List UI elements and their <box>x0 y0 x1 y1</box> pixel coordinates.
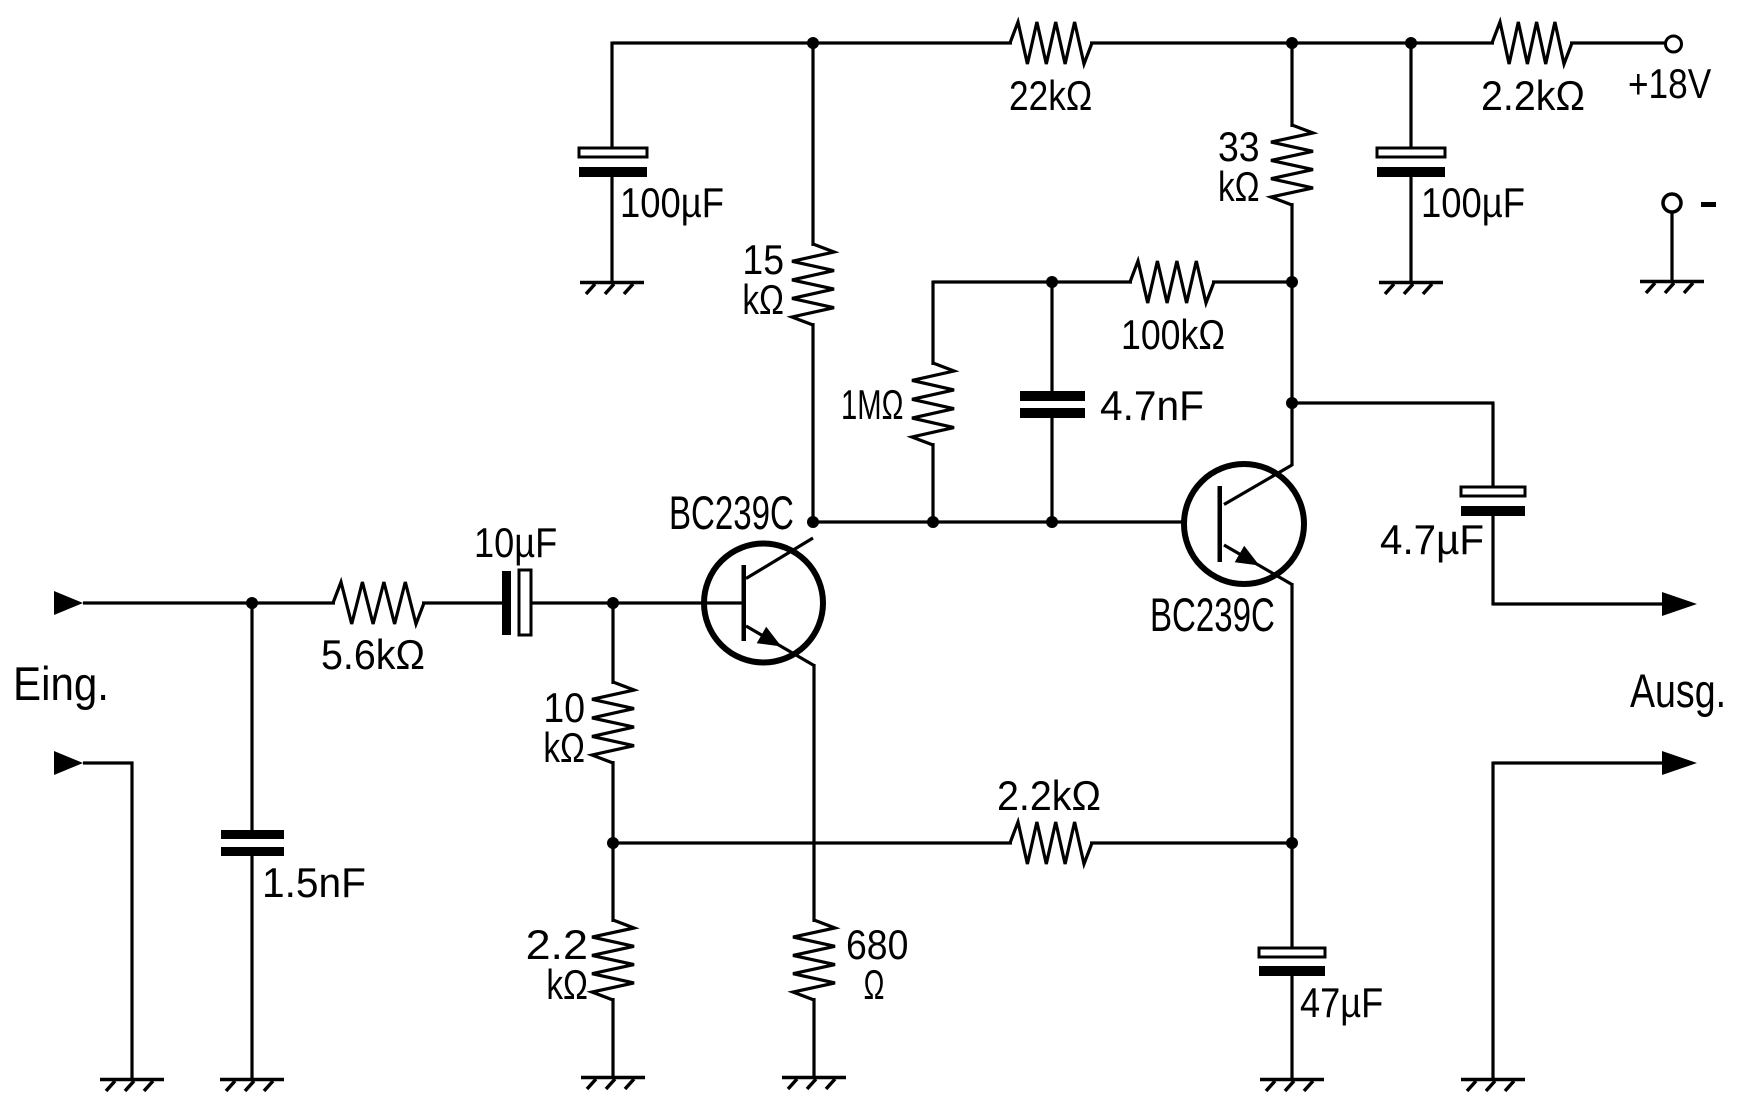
label Ausg. <box>1630 664 1726 717</box>
svg-text:BC239C: BC239C <box>1150 588 1275 641</box>
wire Q1 collector to Q2 base row <box>813 520 1183 523</box>
wire output2 horizontal <box>1493 761 1665 764</box>
junction 100kΩ row / 4.7nF top <box>1046 276 1058 288</box>
wire Q2 collector vertical <box>1290 403 1293 466</box>
wire 15kΩ to Q1 collector node <box>811 323 814 522</box>
label +18V <box>1628 60 1711 107</box>
svg-text:1MΩ: 1MΩ <box>841 381 903 428</box>
wire 1.5nF to ground <box>250 856 253 1079</box>
junction rail / 33kΩ column <box>1286 37 1298 49</box>
resistor 15kΩ <box>792 244 834 325</box>
label 10µF <box>474 519 557 566</box>
wire rail corner down to C2 <box>1409 43 1412 149</box>
svg-text:2.2kΩ: 2.2kΩ <box>997 772 1101 819</box>
svg-text:Ω: Ω <box>864 961 885 1008</box>
svg-text:100µF: 100µF <box>1421 179 1525 226</box>
wire rail to 33kΩ <box>1290 43 1293 127</box>
wire input2 vertical to ground <box>130 762 133 1080</box>
junction feedback / Q2 emitter <box>1286 837 1298 849</box>
junction input / 1.5nF <box>246 597 258 609</box>
wire C2 to ground <box>1409 177 1412 282</box>
wire - terminal to ground <box>1670 212 1673 281</box>
label kΩ (2.2kΩ line2) <box>546 961 588 1008</box>
label kΩ (15kΩ line2) <box>742 276 784 323</box>
capacitor 1.5nF plates <box>221 830 284 856</box>
junction rail / 100µF column <box>1405 37 1417 49</box>
label 47µF <box>1300 979 1383 1026</box>
terminal +18V open circle <box>1666 36 1682 52</box>
label 100µF (C1) <box>620 179 724 226</box>
label 1MΩ <box>841 381 903 428</box>
output terminal arrow 1 <box>1662 592 1697 616</box>
transistor Q2 BC239C circle <box>1184 464 1304 584</box>
svg-text:100µF: 100µF <box>620 179 724 226</box>
transistor Q1 emitter arrowhead <box>757 627 782 647</box>
label 100µF (C2) <box>1421 179 1525 226</box>
ground below C1 <box>580 283 644 295</box>
wire 10µF to Q1 base <box>531 601 742 604</box>
svg-text:1.5nF: 1.5nF <box>262 859 366 906</box>
wire Q1 emitter down <box>812 664 815 922</box>
wire 680Ω to ground <box>812 998 815 1077</box>
wire rail to 15kΩ <box>811 43 814 246</box>
label 2.2kΩ (feedback) <box>997 772 1101 819</box>
capacitor C1 100µF plates <box>579 148 647 177</box>
svg-text:47µF: 47µF <box>1300 979 1383 1026</box>
capacitor C2 100µF plates <box>1377 148 1445 177</box>
wire 47µF to ground <box>1290 976 1293 1079</box>
wire C1 to ground <box>610 177 613 282</box>
transistor Q1 emitter diagonal <box>746 626 814 666</box>
transistor Q2 base bar <box>1218 486 1223 562</box>
svg-text:4.7µF: 4.7µF <box>1380 516 1484 563</box>
label Ω (680Ω line2) <box>864 961 885 1008</box>
svg-text:22kΩ: 22kΩ <box>1009 72 1092 119</box>
label 2.2kΩ (rail) <box>1481 72 1585 119</box>
label 33 (33kΩ line1) <box>1218 123 1260 170</box>
svg-text:kΩ: kΩ <box>546 961 588 1008</box>
ground below input2 <box>100 1080 164 1092</box>
resistor 5.6kΩ <box>333 582 424 624</box>
svg-text:10µF: 10µF <box>474 519 557 566</box>
wire 1MΩ to base row <box>931 443 934 522</box>
junction 100kΩ row / 33kΩ column <box>1286 276 1298 288</box>
input terminal arrow 2 <box>54 751 83 775</box>
label 4.7nF <box>1100 382 1204 429</box>
wire +18V rail right segment <box>1570 41 1665 44</box>
wire Q2 emitter down <box>1290 583 1293 844</box>
wire 1MΩ top corner to 100kΩ <box>933 280 1132 283</box>
ground below - terminal <box>1640 282 1704 294</box>
ground below C2 <box>1379 283 1443 295</box>
resistor 33kΩ <box>1271 125 1313 205</box>
svg-text:kΩ: kΩ <box>543 724 585 771</box>
transistor Q2 collector diagonal <box>1224 465 1292 505</box>
label 2.2 (2.2kΩ line1) <box>526 921 588 968</box>
junction Q2 collector / output branch <box>1286 397 1298 409</box>
capacitor 47µF plates <box>1259 948 1325 976</box>
wire 4.7nF bottom <box>1050 418 1053 522</box>
wire 100kΩ to 33kΩ column <box>1212 280 1292 283</box>
wire 10kΩ to feedback node <box>611 761 614 844</box>
resistor 2.2kΩ (feedback) <box>1010 822 1092 864</box>
svg-text:BC239C: BC239C <box>669 486 794 539</box>
input terminal arrow 1 <box>54 591 83 615</box>
label BC239C (Q1) <box>669 486 794 539</box>
resistor 2.2kΩ (Q1 base divider) <box>592 920 634 1000</box>
capacitor 4.7nF plates <box>1020 391 1085 418</box>
transistor Q1 BC239C circle <box>704 544 823 663</box>
wire Q2 collector node to 4.7µF corner <box>1292 401 1495 404</box>
ground below 47µF <box>1260 1080 1324 1092</box>
wire node to 5.6kΩ <box>252 601 335 604</box>
junction 10kΩ / 2.2kΩ / feedback <box>607 837 619 849</box>
wire Q2 emitter to 47µF <box>1290 843 1293 949</box>
wire feedback node to 2.2kΩ <box>611 843 614 922</box>
label Eing. <box>13 657 109 710</box>
label 15 (15kΩ line1) <box>742 236 784 283</box>
wire +18V rail left segment <box>612 41 1012 44</box>
wire feedback right segment <box>1090 841 1292 844</box>
svg-text:Ausg.: Ausg. <box>1630 664 1726 717</box>
transistor Q2 emitter diagonal <box>1224 545 1292 585</box>
resistor 2.2kΩ (rail) <box>1492 22 1572 64</box>
junction 4.7nF bottom <box>1046 516 1058 528</box>
label - (minus) <box>1701 202 1716 207</box>
resistor 22kΩ (rail) <box>1010 22 1092 64</box>
wire 33kΩ to 100kΩ node <box>1290 203 1293 282</box>
wire input to 1.5nF node <box>83 601 254 604</box>
label kΩ (10kΩ line2) <box>543 724 585 771</box>
label 1.5nF <box>262 859 366 906</box>
junction Q1 collector node <box>807 516 819 528</box>
wire output2 vertical to ground <box>1491 762 1494 1080</box>
wire 4.7µF down to output corner <box>1491 516 1494 606</box>
resistor 10kΩ <box>592 682 634 763</box>
label 680 (680Ω line1) <box>846 921 908 968</box>
wire 100kΩ node to Q2 collector corner <box>1290 282 1293 403</box>
svg-text:4.7nF: 4.7nF <box>1100 382 1204 429</box>
wire 2.2kΩ to ground <box>611 998 614 1077</box>
wire 4.7nF top <box>1050 282 1053 392</box>
svg-text:2.2kΩ: 2.2kΩ <box>1481 72 1585 119</box>
transistor Q2 emitter arrowhead <box>1235 546 1260 566</box>
label 5.6kΩ <box>321 631 425 678</box>
wire rail corner down to C1 <box>610 42 613 150</box>
ground below 680Ω <box>782 1078 846 1090</box>
wire output1 horizontal <box>1493 602 1665 605</box>
label 100kΩ <box>1121 311 1225 358</box>
label 10 (10kΩ line1) <box>543 684 585 731</box>
capacitor 4.7µF plates <box>1461 487 1525 516</box>
svg-text:Eing.: Eing. <box>13 657 109 710</box>
wire base node to 10kΩ <box>611 603 614 684</box>
svg-text:100kΩ: 100kΩ <box>1121 311 1225 358</box>
label BC239C (Q2) <box>1150 588 1275 641</box>
resistor 1MΩ <box>912 363 954 445</box>
transistor Q1 collector diagonal <box>746 538 813 579</box>
label 4.7µF <box>1380 516 1484 563</box>
resistor 100kΩ <box>1130 261 1214 303</box>
junction rail / 15kΩ column <box>807 37 819 49</box>
ground below 1.5nF <box>220 1080 284 1092</box>
resistor 680Ω <box>793 920 835 1000</box>
wire 5.6kΩ to 10µF <box>422 601 503 604</box>
svg-text:+18V: +18V <box>1628 60 1711 107</box>
svg-text:5.6kΩ: 5.6kΩ <box>321 631 425 678</box>
wire corner down to 4.7µF <box>1491 403 1494 488</box>
transistor Q1 base bar <box>742 565 747 641</box>
ground below output2 <box>1461 1080 1525 1092</box>
wire +18V rail middle segment <box>1090 41 1494 44</box>
capacitor 10µF plates <box>502 570 531 635</box>
junction 1MΩ bottom <box>927 516 939 528</box>
label kΩ (33kΩ line2) <box>1218 163 1260 210</box>
junction base node / 10kΩ <box>607 597 619 609</box>
label 22kΩ <box>1009 72 1092 119</box>
wire input node down to 1.5nF <box>250 603 253 831</box>
svg-text:kΩ: kΩ <box>1218 163 1260 210</box>
wire feedback left segment <box>613 841 1012 844</box>
svg-text:kΩ: kΩ <box>742 276 784 323</box>
wire corner down to 1MΩ <box>931 281 934 366</box>
terminal - open circle <box>1663 194 1681 212</box>
ground below 2.2kΩ <box>581 1078 645 1090</box>
wire input2 horizontal <box>83 761 134 764</box>
output terminal arrow 2 <box>1662 751 1697 775</box>
